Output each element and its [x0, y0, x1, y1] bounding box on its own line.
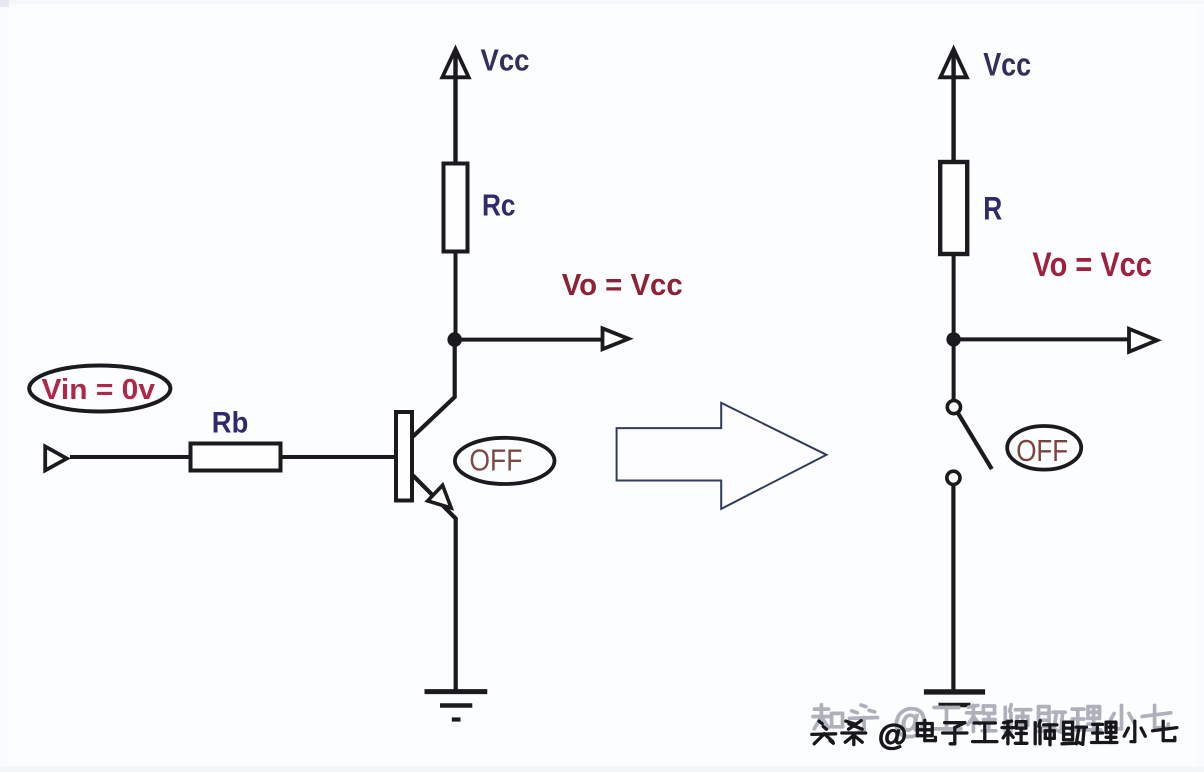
node: collector junction (left)	[447, 332, 462, 347]
edge band bottom	[0, 767, 1204, 772]
ground (left) bar 3	[452, 717, 461, 721]
svg-text:OFF: OFF	[1016, 433, 1068, 468]
watermark (gray) 知乎 @工程师助理小七	[813, 702, 1171, 741]
annotation ellipse OFF (left)	[455, 438, 555, 484]
resistor R	[940, 162, 967, 254]
svg-text:Rb: Rb	[212, 407, 249, 440]
annotation ellipse Vin = 0v	[29, 366, 170, 412]
annotation ellipse OFF (right)	[1007, 426, 1081, 470]
resistor Rb	[191, 444, 281, 471]
wire: node to switch (right)	[952, 339, 956, 400]
wire: input to base through Rb	[70, 455, 191, 459]
transistor Q1 base bar	[396, 412, 412, 501]
wire: R to node (right)	[952, 254, 956, 340]
input arrowhead	[45, 447, 67, 471]
wire: output Vo (left)	[455, 338, 602, 342]
switch contact upper	[947, 401, 960, 414]
switch blade (open)	[958, 413, 992, 469]
wire: switch to ground (right)	[951, 484, 955, 691]
watermark (dark) 头条 @电子工程师助理小七	[812, 719, 1177, 752]
emitter arrowhead of Q1	[428, 485, 452, 508]
svg-text:R: R	[983, 190, 1002, 226]
output arrowhead (left)	[603, 328, 629, 349]
ground (right) bar 2	[939, 703, 971, 708]
power symbol Vcc (right) arrow	[940, 49, 966, 77]
svg-text:Vcc: Vcc	[983, 47, 1031, 83]
wire: Rc to node (left)	[454, 252, 458, 341]
switch contact lower	[947, 471, 960, 484]
svg-text:OFF: OFF	[469, 443, 522, 478]
ground (left) bar 1	[425, 689, 488, 694]
svg-text:Vo = Vcc: Vo = Vcc	[562, 267, 683, 302]
svg-text:Vo = Vcc: Vo = Vcc	[1032, 246, 1152, 284]
svg-text:Vin = 0v: Vin = 0v	[42, 374, 156, 406]
node: output junction (right)	[946, 332, 960, 346]
power symbol Vcc (left) arrow	[442, 49, 468, 77]
wire: Rb to base	[281, 455, 397, 459]
wire: output Vo (right)	[954, 337, 1129, 341]
output arrowhead (right)	[1129, 329, 1157, 352]
ground (right) bar 1	[924, 689, 985, 694]
big transform arrow	[617, 403, 827, 509]
wire: Vcc lead (right)	[951, 50, 955, 162]
svg-text:Vcc: Vcc	[481, 43, 530, 78]
corner smudge	[0, 0, 9, 7]
wire: collector lead of Q1	[413, 340, 455, 437]
svg-text:Rc: Rc	[482, 188, 516, 223]
wire: Vcc lead (left)	[453, 50, 457, 162]
wire: emitter lead of Q1	[413, 476, 456, 692]
ground (left) bar 2	[440, 703, 472, 708]
edge band top	[0, 0, 1204, 4]
resistor Rc	[444, 164, 468, 252]
svg-text:@: @	[878, 719, 907, 752]
